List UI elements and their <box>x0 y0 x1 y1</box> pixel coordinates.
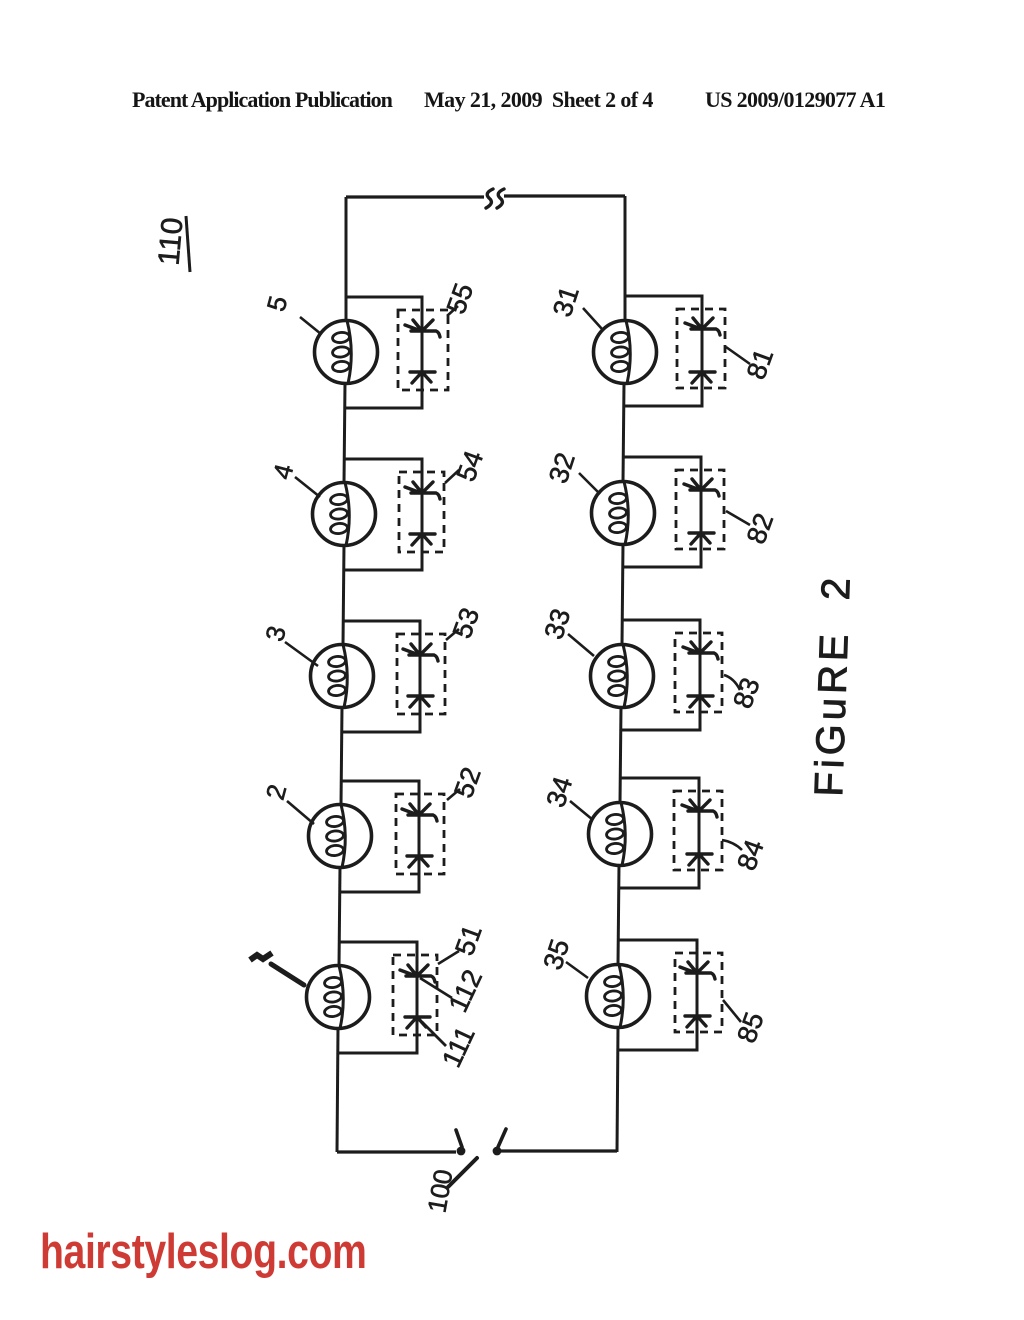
shunt 84 <box>620 778 722 888</box>
wire left column segment <box>344 383 345 483</box>
plug terminal dot left <box>457 1147 466 1156</box>
svg-text:53: 53 <box>447 604 485 642</box>
label lamp 33 <box>539 605 594 656</box>
label shunt 51 <box>438 921 488 964</box>
label shunt 54 <box>445 447 489 485</box>
label shunt 55 <box>441 279 479 317</box>
svg-text:110: 110 <box>152 216 189 267</box>
svg-text:4: 4 <box>267 461 300 483</box>
label shunt 84 <box>722 836 770 874</box>
lamp 31 <box>594 321 657 384</box>
svg-text:34: 34 <box>541 773 579 811</box>
label lamp 35 <box>538 936 588 978</box>
label shunt 85 <box>723 1000 770 1047</box>
shunt 82 <box>623 457 724 567</box>
wire bottom right segment <box>500 1149 617 1152</box>
svg-text:52: 52 <box>448 763 486 801</box>
watermark <box>40 1224 367 1280</box>
svg-text:31: 31 <box>547 283 585 321</box>
lamp 3 <box>311 645 374 708</box>
shunt 54 <box>344 459 444 570</box>
lamp 34 <box>589 803 652 866</box>
svg-text:85: 85 <box>731 1008 769 1046</box>
svg-text:2: 2 <box>260 781 293 803</box>
label shunt 52 <box>447 763 487 801</box>
plug terminal tick left <box>456 1130 462 1147</box>
wire right column segment <box>624 196 627 321</box>
svg-text:3: 3 <box>259 623 292 645</box>
label lamp 34 <box>541 773 593 820</box>
plug terminal dot right <box>493 1147 502 1156</box>
svg-text:100: 100 <box>421 1167 458 1215</box>
label lamp 31 <box>547 283 602 329</box>
lamp 1 <box>307 966 370 1029</box>
label shunt 83 <box>724 674 766 712</box>
svg-text:55: 55 <box>441 279 479 317</box>
wire top right segment <box>504 194 625 197</box>
wire left column segment <box>339 867 340 966</box>
lamp 4 <box>313 483 376 546</box>
label lamp 32 <box>543 449 600 494</box>
label plug 100 <box>421 1158 477 1215</box>
svg-text:112: 112 <box>443 965 488 1017</box>
shunt 55 <box>346 297 448 408</box>
lamp 33 <box>591 645 654 708</box>
figure caption <box>807 573 859 797</box>
shunt 83 <box>622 620 722 730</box>
label lamp 3 <box>259 623 318 666</box>
wire right column segment <box>622 544 623 645</box>
wire right column segment <box>620 707 621 803</box>
svg-text:54: 54 <box>451 447 489 485</box>
wire bottom left segment <box>337 1150 456 1153</box>
wire left column segment <box>337 1028 338 1152</box>
plug terminal tick right <box>498 1129 506 1147</box>
label shunt 81 <box>726 345 779 383</box>
header: patent publication line <box>132 87 392 113</box>
label lamp 5 <box>261 293 321 334</box>
lamp 35 <box>587 965 650 1028</box>
lamp 5 <box>315 321 378 384</box>
shunt 51 <box>338 942 437 1053</box>
shunt 81 <box>625 296 725 406</box>
svg-text:81: 81 <box>741 345 779 383</box>
wire top left segment <box>346 195 484 198</box>
svg-text:84: 84 <box>731 836 769 874</box>
label lamp 4 <box>267 461 320 497</box>
wire right column segment <box>618 865 619 965</box>
svg-text:FiGuRE 2: FiGuRE 2 <box>807 573 859 797</box>
wire left column segment <box>341 707 342 805</box>
lamp 2 <box>309 805 372 868</box>
wire left column segment <box>345 197 348 321</box>
svg-text:5: 5 <box>261 293 294 315</box>
lamp 32 <box>592 482 655 545</box>
shunt 85 <box>618 940 722 1050</box>
label lamp 2 <box>260 781 314 824</box>
label shunt 82 <box>726 509 779 547</box>
label lamp 1 <box>250 953 304 985</box>
shunt 52 <box>340 781 444 892</box>
svg-text:32: 32 <box>543 449 581 487</box>
svg-text:111: 111 <box>436 1022 481 1072</box>
svg-text:82: 82 <box>741 509 779 547</box>
label shunt 53 <box>446 604 485 642</box>
wire right column segment <box>623 383 624 482</box>
wire break symbol <box>486 189 504 208</box>
label 111 <box>422 1022 481 1072</box>
label 112 <box>420 965 488 1017</box>
net label 110 <box>152 216 190 272</box>
svg-text:35: 35 <box>538 936 576 974</box>
shunt 53 <box>342 621 445 732</box>
wire right column segment <box>617 1027 618 1152</box>
wire left column segment <box>343 545 344 645</box>
